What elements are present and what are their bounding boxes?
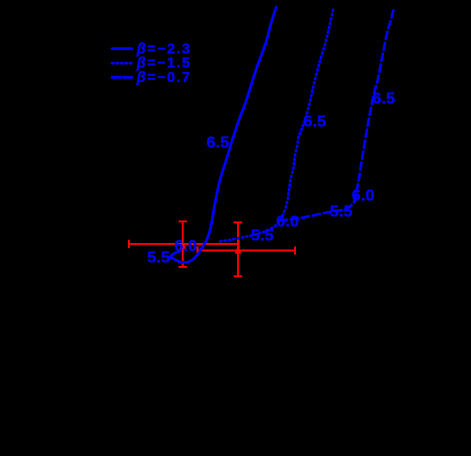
svg-text:5.5: 5.5 xyxy=(147,250,170,267)
svg-text:6.5: 6.5 xyxy=(372,91,395,108)
svg-text:6.0: 6.0 xyxy=(352,187,375,204)
svg-text:6.5: 6.5 xyxy=(303,113,326,130)
svg-text:β=−0.7: β=−0.7 xyxy=(136,70,192,86)
svg-text:5.5: 5.5 xyxy=(251,227,274,244)
svg-text:6.5: 6.5 xyxy=(206,135,229,152)
svg-text:6.0: 6.0 xyxy=(174,238,197,255)
svg-text:6.0: 6.0 xyxy=(276,214,299,231)
svg-text:5.5: 5.5 xyxy=(330,203,353,220)
